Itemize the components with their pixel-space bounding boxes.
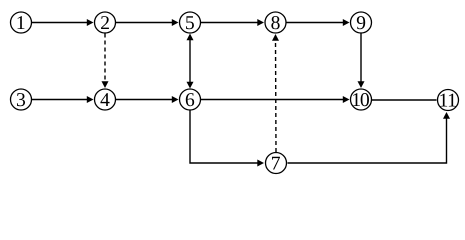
wire 10-11 bbox=[372, 99, 437, 101]
wire 3-4 bbox=[32, 96, 94, 103]
node 3 bbox=[11, 89, 32, 110]
node 2 bbox=[95, 12, 116, 33]
node 9 bbox=[351, 12, 372, 33]
wire 7-8 dashed bbox=[272, 34, 279, 152]
wire 5-8 bbox=[201, 19, 264, 26]
node 10 bbox=[351, 89, 372, 110]
node 1 bbox=[11, 12, 32, 33]
wire 1-2 bbox=[32, 19, 94, 26]
node 5 bbox=[180, 12, 201, 33]
wire 9-10 bbox=[358, 34, 365, 89]
wire 2-4 dashed bbox=[102, 34, 109, 89]
wire 8-9 bbox=[287, 19, 350, 26]
wire 2-5 bbox=[116, 19, 179, 26]
node 8 bbox=[265, 12, 286, 33]
node 7 bbox=[266, 153, 287, 174]
wire 6-7 elbow bbox=[190, 111, 264, 167]
node 11 bbox=[438, 90, 459, 111]
wire 5-6 double arrow bbox=[187, 34, 194, 89]
node 6 bbox=[180, 89, 201, 110]
node 4 bbox=[95, 89, 116, 110]
wire 6-10 bbox=[201, 96, 350, 103]
wire 4-6 bbox=[116, 96, 179, 103]
wire 7-11 elbow bbox=[288, 112, 451, 163]
